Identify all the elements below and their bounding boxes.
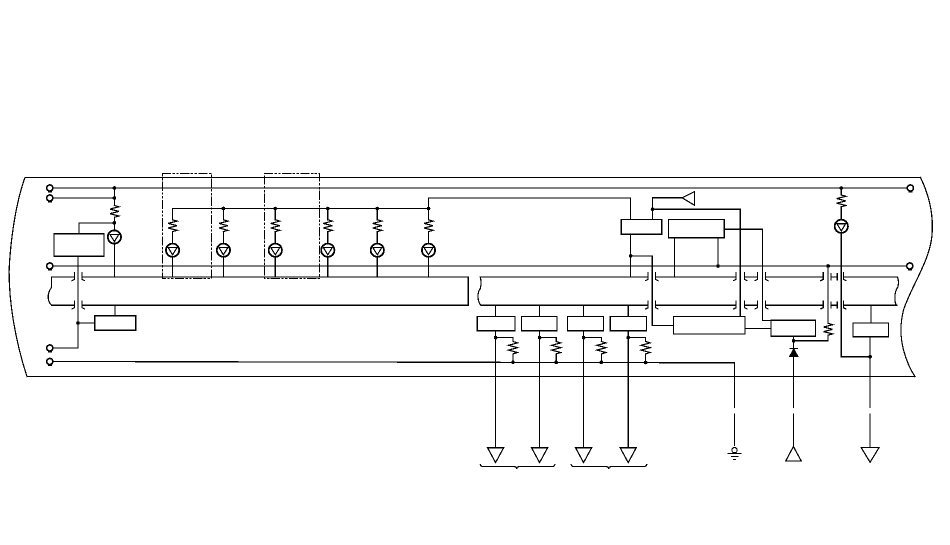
wire lamp L1 column [113,188,115,206]
resistor R10 [597,342,606,363]
connector ticks H2 top c [755,273,768,281]
wire W1 top feed [53,187,907,189]
wire C node to R10 [584,338,602,342]
wire K2 right stub to W3 [717,238,719,266]
node above lamp L1 [113,221,117,225]
node W2 junction [113,196,117,200]
harness segment H1 right end [467,277,469,305]
wire K3 to K4 [745,328,771,330]
node R8 on return wire [511,360,515,364]
harness segment H1 bottom line [52,304,469,306]
connector pin P5 [47,358,53,365]
connector pin P6 right [907,185,913,192]
wire L3 to H1 [222,257,224,277]
node A drop [494,336,498,340]
ground G1 [488,448,504,463]
node on W3 at x718 [716,264,720,268]
lamp column C3 wire [222,209,224,220]
brace under G3 G4 [571,465,647,469]
wire junction to K3 drop [653,209,741,316]
wire D1 to ground G5 [793,356,795,446]
connector pin P7 right [907,263,913,270]
connector pin P4 [47,345,53,352]
resistor R8 [509,342,518,363]
wire K2 side to K4 [724,229,771,320]
wire M1 bottom drop [77,256,79,348]
wire unit C to ground G3 [583,331,585,448]
resistor R11 [641,342,650,363]
wire R5 to L5 [327,232,329,244]
wire R2 to L2 [172,232,174,244]
wire K5 bottom to ground G6 [869,337,871,448]
ground G2 [532,448,548,463]
ground G3 [576,448,592,463]
harness H2 right torn end [895,277,898,305]
node feed at L3 [222,207,226,211]
connector ticks H2 bottom b [734,301,747,309]
connector pin P3 [47,263,53,270]
resistor R13 [837,195,846,207]
node D drop [626,336,630,340]
node K4 drop [792,339,796,343]
harness H2 left torn end [478,277,481,305]
wire D node to R11 [628,338,645,342]
wire K1 bottom drop [630,234,632,277]
wire H2 stub to unit B [539,305,541,316]
module M1 [54,234,104,257]
wire R12 to K4 node [794,335,829,341]
wire A node to R8 [496,338,513,342]
node on M1 drop [76,321,80,325]
node R11 on return wire [644,361,648,365]
node feed at L6 [376,207,380,211]
ground G5 up triangle [786,447,801,461]
lamp column C5 wire [327,209,329,220]
node K5 drop [868,355,872,359]
diode D1 [790,348,798,356]
lamp L4 [269,244,282,257]
wire R3 to L3 [222,232,224,244]
buffer U1 triangle [682,192,695,206]
node on W1 at lamp L7 [840,186,844,190]
unit C [568,317,604,331]
resistor R5 [323,220,332,232]
resistor R7 [424,220,433,232]
node R10 on return wire [600,361,604,365]
wire U1 apex to junction [653,198,683,220]
lamp L6 [371,244,384,257]
wire lamp feed rail [173,208,429,210]
node U1 junction [651,208,655,212]
wire K2 left stub [674,238,676,277]
connector ticks H2 top b [734,273,747,281]
harness segment H1 top line [51,276,468,278]
lamp L8 [835,220,848,233]
connector pin P1 [47,185,53,192]
harness segment H2 bottom line [481,304,897,306]
connector ticks H2 top a [646,273,658,281]
resistor R6 [373,220,382,232]
relay K2 [668,220,724,238]
wire H2 stub to unit D [627,305,629,316]
connector ticks H2 bottom c [755,301,768,309]
lamp L2 [166,244,179,257]
harness band bottom border [27,376,915,378]
relay K5 [853,323,889,337]
wire L4 to H1 [274,257,276,277]
wire P4 to M1 drop [53,347,78,349]
connector pin P2 [47,195,53,202]
shield box S2 dash-dot [265,174,320,279]
connector coupler H2 top d middle [831,274,837,280]
earth ground E1 [728,448,741,460]
shield box S1 dash-dot [163,174,212,279]
node feed at L5 [326,207,330,211]
harness band left torn edge [9,178,27,377]
lamp L1 [108,230,121,243]
lamp column C6 wire [376,209,378,220]
wire L5 to H1 [327,257,329,277]
node feed at L7col [427,207,431,211]
relay K3 [673,317,745,335]
lamp column C7 wire [428,209,430,220]
lamp column C2 wire [172,209,174,220]
wire H2 stub to unit C [583,305,585,316]
connector ticks H2 bottom a [646,301,658,309]
ground G4 [620,448,636,463]
wire L6 to H1 [376,257,378,277]
wire M1 top to L1 node [79,223,114,234]
resistor R9 [552,342,561,363]
resistor R4 [271,220,280,232]
connector coupler H2 bottom d middle [831,302,837,308]
lamp L5 [321,244,334,257]
ground G6 [861,448,879,463]
wire L8 down to K5 node [841,233,870,357]
connector ticks H2 bottom d [821,301,846,309]
wire K5 top stub to H2 [870,305,872,323]
wire W3 main bus from P3 [53,265,907,267]
wire node to module M2 [78,322,95,324]
harness band right torn edge [901,178,932,377]
node B drop [538,336,542,340]
wire R7 to L7 [428,232,430,244]
resistor R3 [219,220,228,232]
resistor R1 [110,206,119,218]
lamp L3 [217,244,230,257]
resistor R12 [824,323,833,335]
wire W2 from P2 [53,197,114,199]
wire R13 to L8 [840,207,842,220]
wire K1 node to K3 [631,256,674,326]
node on W3 at x828 [826,264,830,268]
wire feed riser to W2b [429,198,631,220]
wire B node to R9 [540,338,557,342]
lamp column C4 wire [274,209,276,220]
harness segment H1 left torn end [48,277,52,305]
wire L7 to H1 [428,257,430,277]
node C drop [582,336,586,340]
wire L1 to harness H1 [113,244,115,277]
wire H2 stub to unit A [495,305,497,316]
connector ticks H2 top d [821,273,846,281]
wire unit D to ground G4 [627,331,629,448]
relay K1 [621,220,661,235]
wire R6 to L6 [376,232,378,244]
wire R1 to node [113,217,115,230]
unit B [521,317,557,331]
unit D [610,317,646,331]
lamp L8 column from W1 [840,188,842,195]
node on W1 at lamp L1 [113,186,117,190]
node R9 on return wire [554,361,558,365]
connector ticks H1 top [72,273,84,281]
wire K4 bottom drop [793,336,795,348]
resistor R2 [168,220,177,232]
node on K1 drop [629,254,633,258]
wire return rail from P5 [53,362,735,446]
connector ticks H1 bottom [72,301,84,309]
wire L2 to H1 [172,257,174,277]
wire unit B to ground G2 [539,331,541,448]
harness band top border [25,177,921,179]
relay K4 [771,320,816,336]
resistor R12 drop from W3 [827,266,829,323]
harness segment H2 top line [480,276,897,278]
wire R4 to L4 [274,232,276,244]
wire M2 top to harness H1 [114,305,116,316]
module M2 [95,316,136,331]
brace under G1 G2 [480,465,554,469]
lamp L7 [422,244,435,257]
node feed at L4 [274,207,278,211]
wire unit A to ground G1 [495,331,497,448]
unit A [477,317,515,331]
